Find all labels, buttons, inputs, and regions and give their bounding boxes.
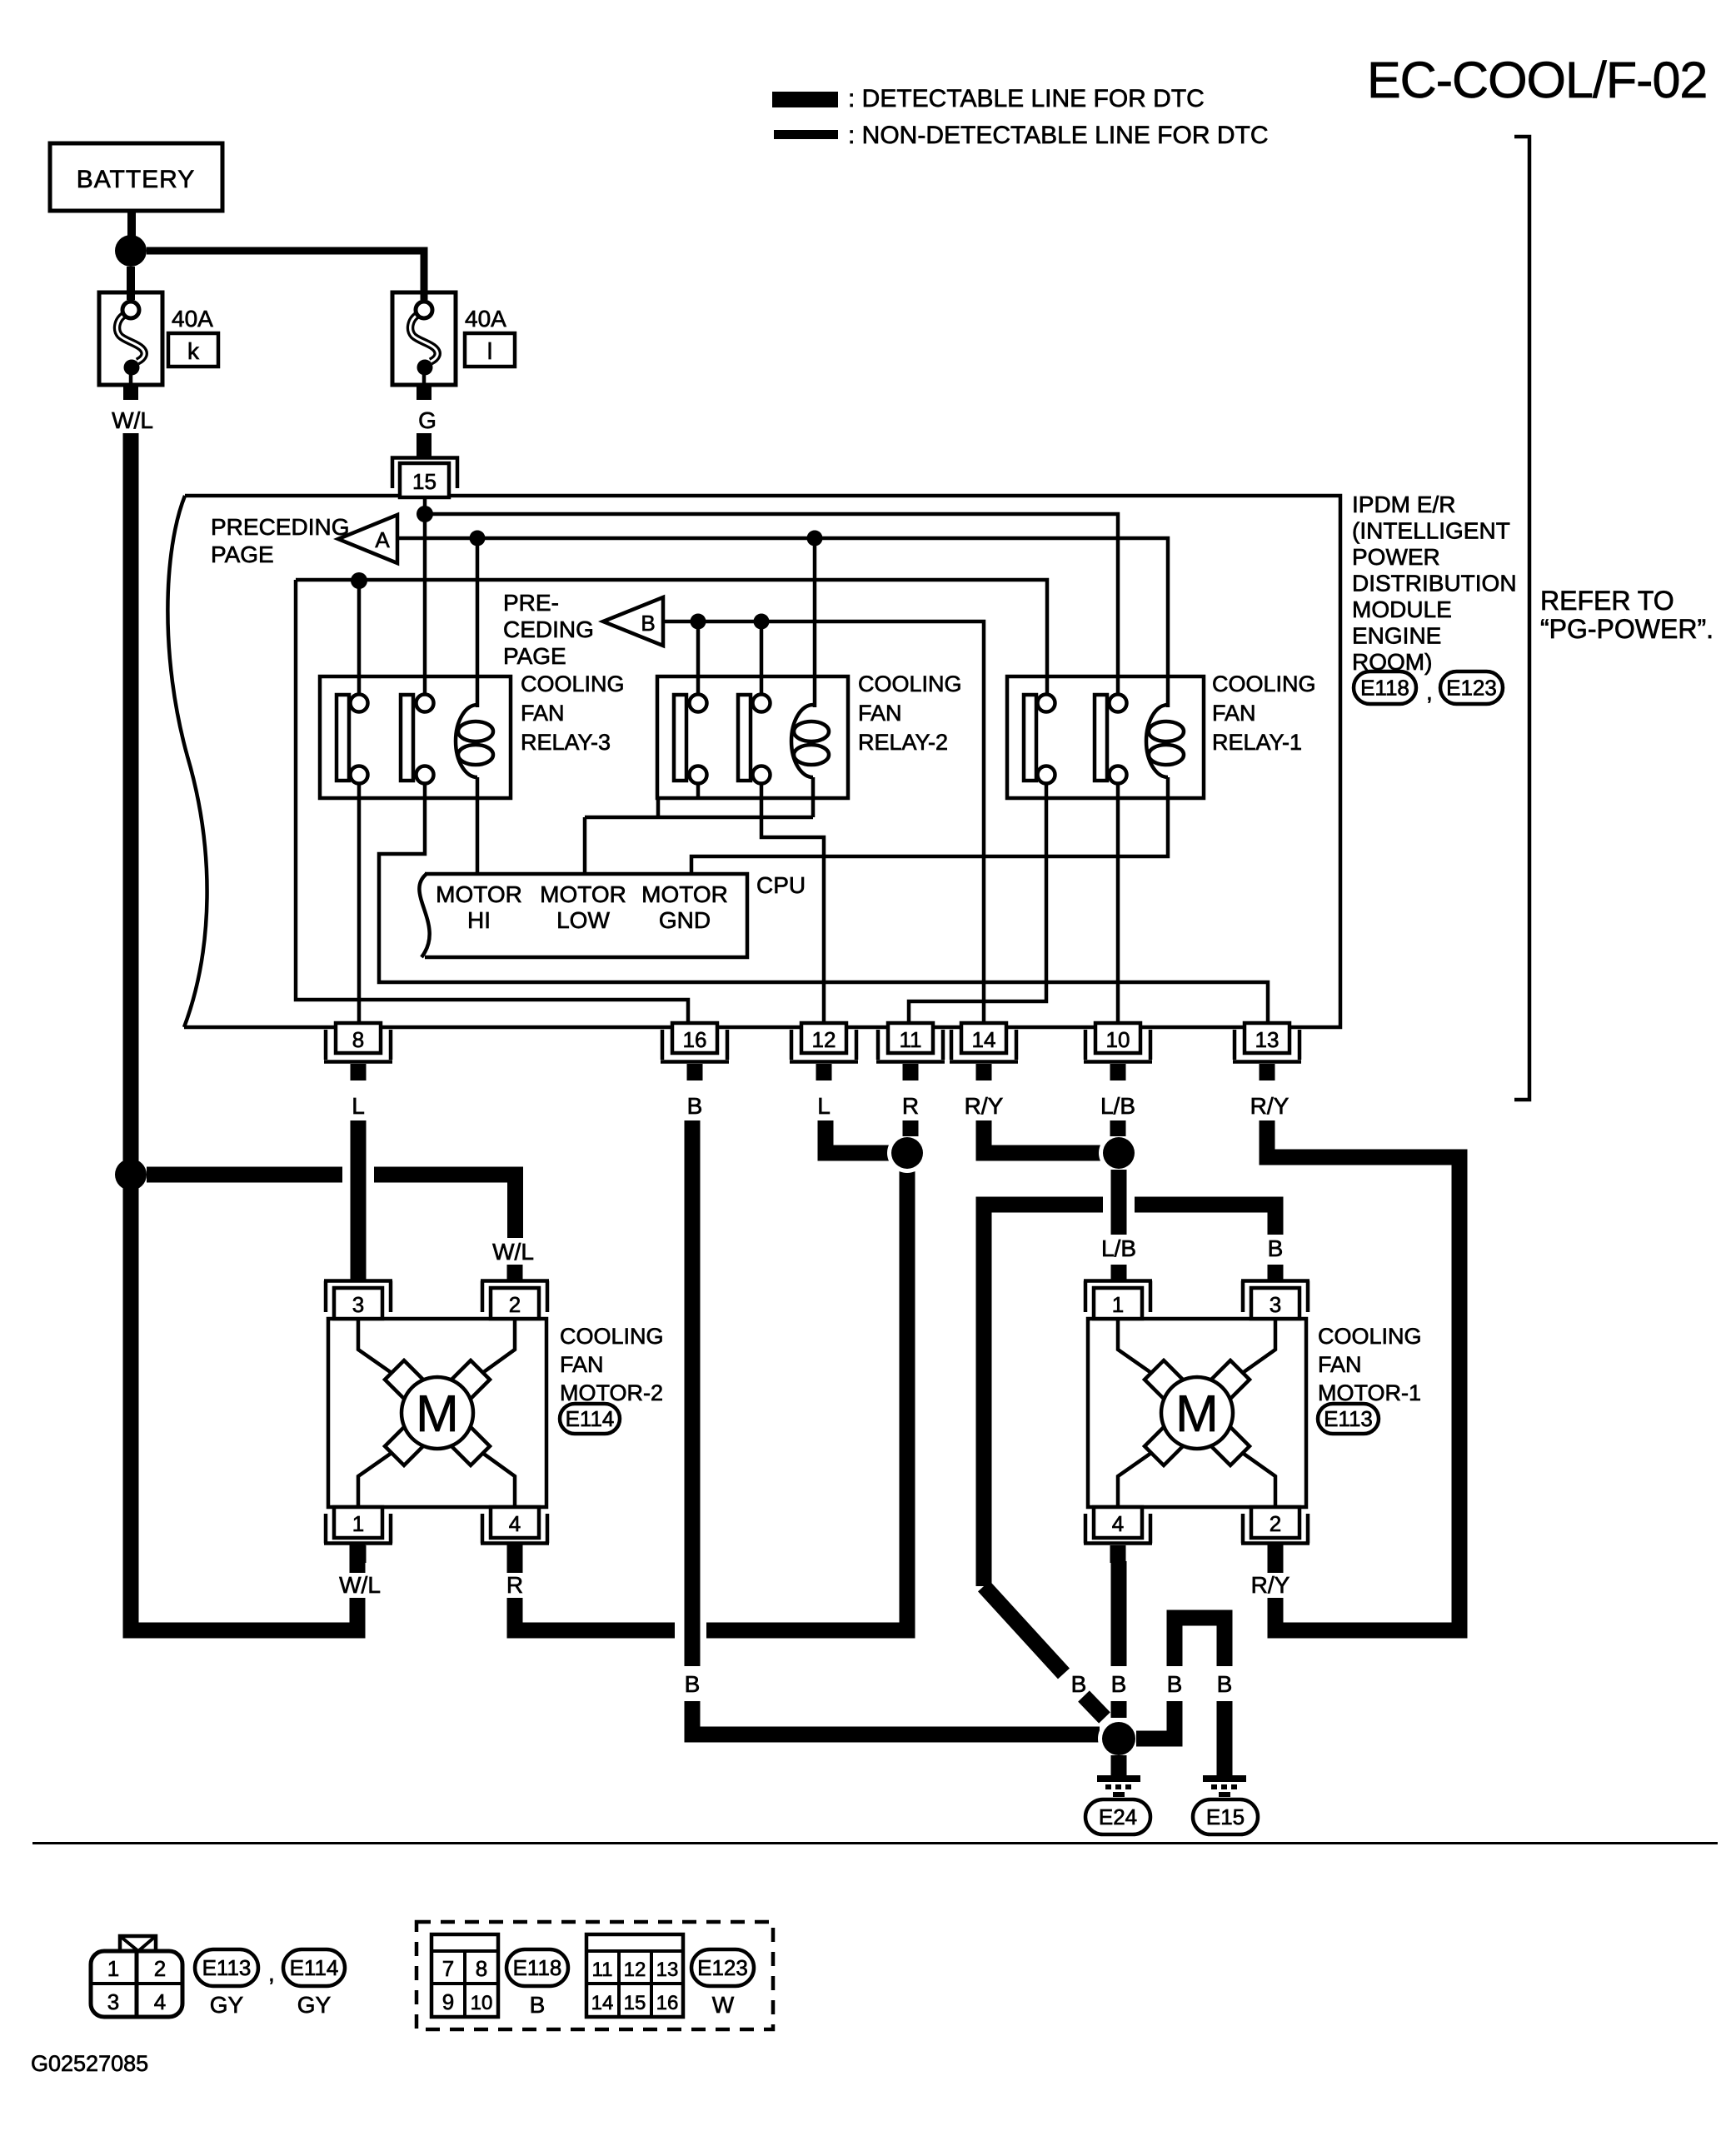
- node dot B to relay-2 bar2: [754, 614, 770, 630]
- svg-text:G02527085: G02527085: [31, 2051, 148, 2076]
- label B diagonal: [1071, 1671, 1087, 1697]
- label MOTOR HI: [436, 881, 522, 933]
- svg-text:B: B: [1268, 1235, 1284, 1261]
- relay K3 cooling fan relay-3: [320, 676, 511, 798]
- svg-text:40A: 40A: [172, 306, 213, 332]
- svg-text:2: 2: [1270, 1511, 1281, 1536]
- svg-text:BATTERY: BATTERY: [77, 166, 196, 193]
- label cooling fan motor-2: [560, 1324, 664, 1405]
- fuse l label 40A: [465, 306, 506, 332]
- label W E123: [712, 1992, 735, 2018]
- svg-text:RELAY-2: RELAY-2: [858, 730, 948, 755]
- svg-text:E24: E24: [1099, 1804, 1137, 1829]
- svg-text:11: 11: [592, 1959, 613, 1981]
- svg-text:EC-COOL/F-02: EC-COOL/F-02: [1367, 52, 1707, 108]
- svg-text:B: B: [685, 1671, 701, 1697]
- connector E123 oval bottom: [691, 1949, 754, 1986]
- wire bus A line to relay-1 coil: [397, 538, 1168, 707]
- svg-text:PRE-: PRE-: [503, 590, 559, 616]
- svg-text:2: 2: [154, 1956, 166, 1981]
- label cooling fan relay-1: [1212, 671, 1316, 755]
- label cooling fan motor-1: [1318, 1324, 1422, 1405]
- svg-text:16: 16: [683, 1027, 707, 1052]
- svg-text:COOLING: COOLING: [1318, 1324, 1422, 1349]
- svg-text:B: B: [1217, 1671, 1233, 1697]
- wire relay-2 coil down: [811, 777, 816, 817]
- wire fuse l output stub: [417, 385, 432, 400]
- fuse k letter box: [168, 333, 218, 367]
- svg-text:E113: E113: [202, 1955, 252, 1980]
- svg-text:12: 12: [624, 1959, 646, 1981]
- wire relay-2 bar2 to pin 12: [761, 784, 824, 1026]
- svg-text:ENGINE: ENGINE: [1352, 623, 1441, 649]
- svg-text:GY: GY: [210, 1992, 244, 2018]
- svg-text:FAN: FAN: [521, 701, 565, 726]
- wire relay-3 bar2 to pin 13: [379, 784, 1268, 1026]
- wire relay-3 coil to CPU MOTOR HI: [476, 777, 480, 876]
- wire relay-1 bar2 to pin 10: [1116, 784, 1120, 1026]
- svg-text:A: A: [375, 527, 390, 552]
- relay K1 cooling fan relay-1: [1007, 676, 1204, 798]
- label GY E113: [210, 1992, 244, 2018]
- svg-text:k: k: [187, 338, 200, 364]
- wire R/Y pin 14 to L/B node: [984, 1120, 1101, 1153]
- CPU box: [419, 874, 747, 957]
- triangle B preceding page: [603, 597, 663, 646]
- label R/Y pin 13 wire: [1250, 1093, 1290, 1119]
- svg-text:B: B: [687, 1093, 703, 1119]
- svg-text:M: M: [1175, 1385, 1219, 1443]
- svg-text:CEDING: CEDING: [503, 616, 594, 642]
- label W/L fuse k: [112, 407, 153, 433]
- wire ground node to E15 bridge: [1136, 1618, 1225, 1776]
- svg-text:9: 9: [442, 1989, 454, 2014]
- pin 15 connector box: [400, 463, 449, 497]
- svg-text:l: l: [487, 338, 492, 364]
- battery: [50, 143, 222, 211]
- junction dot battery node: [115, 235, 147, 267]
- connector view E118 grid: [432, 1934, 498, 2017]
- wire branch to relay-2 bar2: [760, 621, 764, 705]
- comma between connector ovals: [1426, 679, 1433, 705]
- wire bus line to relay-1 bar2: [425, 514, 1118, 705]
- fuse k label 40A: [172, 306, 213, 332]
- svg-text:REFER TO: REFER TO: [1540, 586, 1674, 616]
- fuse l 40A: [392, 287, 456, 385]
- wire relay-2 bar1 stub: [696, 784, 701, 798]
- svg-text:PRECEDING: PRECEDING: [211, 514, 349, 540]
- svg-text:4: 4: [154, 1989, 166, 2014]
- svg-text:COOLING: COOLING: [1212, 671, 1316, 696]
- node dot A to relay-3 coil: [470, 531, 486, 546]
- ground E15 oval: [1193, 1799, 1258, 1834]
- label R/Y motor-1 pin2: [1251, 1572, 1290, 1598]
- connector E114 oval bottom: [283, 1949, 345, 1986]
- label B bridge left leg: [1167, 1671, 1183, 1697]
- svg-text:14: 14: [972, 1027, 996, 1052]
- fuse k 40A: [99, 268, 162, 385]
- svg-text:E118: E118: [513, 1955, 562, 1980]
- wire W/L node to motor-2 pin 2 (right part): [374, 1175, 516, 1238]
- svg-text:B: B: [1071, 1671, 1087, 1697]
- pin 10 connector IPDM: [1084, 1023, 1152, 1080]
- legend detectable text: [848, 85, 1205, 112]
- svg-text:4: 4: [509, 1511, 521, 1536]
- svg-text:LOW: LOW: [556, 907, 610, 933]
- svg-text:W/L: W/L: [492, 1239, 534, 1265]
- label cooling fan relay-3: [521, 671, 625, 755]
- ground symbol E24: [1097, 1775, 1140, 1797]
- svg-text:E123: E123: [697, 1955, 748, 1980]
- legend non-detectable text: [848, 122, 1269, 149]
- label MOTOR LOW: [540, 881, 626, 933]
- wire battery to junction: [127, 211, 136, 237]
- svg-text:: NON-DETECTABLE LINE FOR DTC: : NON-DETECTABLE LINE FOR DTC: [848, 122, 1269, 149]
- svg-text:COOLING: COOLING: [858, 671, 962, 696]
- label B bridge: [1217, 1671, 1233, 1697]
- wire L/B node to motor-1 pin 1: [1111, 1170, 1127, 1280]
- triangle A preceding page: [338, 515, 397, 563]
- svg-text:MOTOR: MOTOR: [540, 881, 626, 907]
- svg-text:1: 1: [107, 1956, 119, 1981]
- label R motor-2 pin4: [506, 1572, 523, 1598]
- svg-text:E113: E113: [1324, 1406, 1373, 1431]
- svg-text:“PG-POWER”.: “PG-POWER”.: [1540, 614, 1714, 644]
- connector E118 oval bottom: [506, 1949, 568, 1986]
- svg-text:B: B: [1111, 1671, 1127, 1697]
- node dot pin15 bus: [417, 506, 433, 522]
- wire battery node to fuse k: [127, 267, 135, 292]
- svg-text:40A: 40A: [465, 306, 506, 332]
- pin 16 connector IPDM: [661, 1023, 729, 1080]
- label W/L motor-2 pin2: [492, 1239, 534, 1265]
- svg-text:DISTRIBUTION: DISTRIBUTION: [1352, 571, 1517, 596]
- svg-text:MOTOR: MOTOR: [436, 881, 522, 907]
- label B pin 16 wire: [687, 1093, 703, 1119]
- svg-text:M: M: [416, 1385, 459, 1443]
- wire B crossline to motor-1 pin 3: [984, 1205, 1275, 1586]
- IPDM E/R label: [1352, 492, 1517, 675]
- svg-text:10: 10: [1106, 1027, 1130, 1052]
- svg-text:11: 11: [900, 1027, 922, 1052]
- label MOTOR GND: [641, 881, 728, 933]
- connector E113 oval bottom: [195, 1949, 258, 1986]
- wire B line to pin 14: [663, 621, 984, 1026]
- svg-text:MODULE: MODULE: [1352, 596, 1452, 622]
- connector view E113/E114 4-pin: [91, 1936, 182, 2017]
- svg-text:GY: GY: [297, 1992, 332, 2018]
- wire W/L into motor-2 pin 2: [507, 1265, 523, 1280]
- wire R/Y pin 13 loop to motor-1 pin 2: [1267, 1120, 1459, 1630]
- separator line: [32, 1842, 1718, 1844]
- svg-text:HI: HI: [467, 907, 491, 933]
- svg-text:L: L: [352, 1093, 365, 1119]
- svg-text:4: 4: [1112, 1511, 1124, 1536]
- label B motor-1 pin3: [1268, 1235, 1284, 1261]
- wire R motor-2 pin 4 riser: [515, 1545, 675, 1630]
- svg-text:W/L: W/L: [339, 1572, 381, 1598]
- svg-text:MOTOR: MOTOR: [641, 881, 728, 907]
- connector E113 oval: [1318, 1404, 1379, 1434]
- wire B pin 16 down and to ground node: [692, 1120, 1100, 1734]
- comma bottom: [268, 1960, 275, 1986]
- svg-text:E114: E114: [290, 1955, 339, 1980]
- wire branch to relay-3 bar1: [357, 581, 362, 705]
- svg-text:,: ,: [1426, 679, 1433, 705]
- wire bus to relay bar1 tops and pin 16: [296, 580, 1047, 1026]
- svg-text:R/Y: R/Y: [965, 1093, 1004, 1119]
- dashed box connector views: [417, 1922, 773, 2029]
- svg-text:,: ,: [268, 1960, 275, 1986]
- legend detectable line sample: [772, 92, 838, 107]
- node dot A to relay-2 coil: [807, 531, 823, 546]
- wire W/L battery feed left side: [131, 433, 365, 1630]
- label L/B motor-1 pin1: [1101, 1235, 1136, 1261]
- ground E24 oval: [1085, 1799, 1150, 1834]
- svg-text:RELAY-1: RELAY-1: [1212, 730, 1302, 755]
- motor M2 cooling fan motor-2: [324, 1281, 549, 1574]
- svg-text:2: 2: [509, 1292, 521, 1317]
- title EC-COOL/F-02: [1367, 52, 1707, 108]
- wire fuse k output stub: [123, 385, 138, 400]
- svg-text:W: W: [712, 1992, 735, 2018]
- svg-text:7: 7: [442, 1956, 454, 1981]
- svg-text:R: R: [902, 1093, 919, 1119]
- label cooling fan relay-2: [858, 671, 962, 755]
- connector E114 oval: [560, 1404, 620, 1434]
- wire W/L motor-2 pin 1 riser: [350, 1545, 366, 1639]
- relay K2 cooling fan relay-2: [657, 676, 848, 798]
- label W/L motor-2 pin1: [339, 1572, 381, 1598]
- svg-text:L: L: [817, 1093, 831, 1119]
- junction dot L/R node: [887, 1133, 927, 1173]
- svg-text:R/Y: R/Y: [1251, 1572, 1290, 1598]
- svg-text:L/B: L/B: [1101, 1235, 1136, 1261]
- svg-text:13: 13: [656, 1959, 679, 1981]
- wire pin15 to relay-3 bar2: [423, 499, 427, 705]
- svg-text:B: B: [641, 611, 655, 636]
- label R/Y pin 14 wire: [965, 1093, 1004, 1119]
- label preceding page B: [503, 590, 594, 669]
- svg-text:PAGE: PAGE: [211, 541, 274, 567]
- wire L/B pin 10 to node: [1110, 1120, 1126, 1136]
- svg-text:R/Y: R/Y: [1250, 1093, 1290, 1119]
- wire W/L node to motor-2 pin 2 (left part): [147, 1167, 342, 1183]
- ground symbol E15: [1203, 1775, 1246, 1797]
- wire relay-2 corner to CPU MOTOR LOW: [585, 798, 813, 876]
- svg-text:8: 8: [476, 1956, 487, 1981]
- svg-text:POWER: POWER: [1352, 544, 1440, 570]
- svg-text:W/L: W/L: [112, 407, 153, 433]
- svg-text:B: B: [530, 1992, 546, 2018]
- svg-text:1: 1: [352, 1511, 364, 1536]
- label G fuse l: [418, 407, 436, 433]
- svg-text:IPDM E/R: IPDM E/R: [1352, 492, 1455, 517]
- legend non-detectable line sample: [774, 130, 838, 139]
- pin 11 connector IPDM: [876, 1023, 945, 1080]
- svg-text:COOLING: COOLING: [560, 1324, 664, 1349]
- pin 12 connector IPDM: [790, 1023, 858, 1080]
- label preceding page A: [211, 514, 349, 567]
- svg-text:3: 3: [107, 1989, 119, 2014]
- wire L pin 8 to motor-2 pin 3: [351, 1120, 367, 1280]
- svg-text:8: 8: [352, 1027, 364, 1052]
- wire relay-3 bar1 to pin 8: [357, 784, 362, 1026]
- label B E118: [530, 1992, 546, 2018]
- svg-text:3: 3: [352, 1292, 364, 1317]
- svg-text:16: 16: [656, 1992, 679, 2014]
- wire G to pin 15: [417, 433, 432, 457]
- label B pin16 wire lower: [685, 1671, 701, 1697]
- svg-text:3: 3: [1270, 1292, 1281, 1317]
- wire ground node to E24: [1111, 1755, 1127, 1776]
- svg-text:FAN: FAN: [1318, 1352, 1362, 1377]
- node dot B to relay-2 bar1: [691, 614, 706, 630]
- svg-text:12: 12: [812, 1027, 836, 1052]
- IPDM E/R box: [167, 496, 1340, 1027]
- refer-to bracket: [1514, 137, 1529, 1100]
- wire A line branch to relay-2 coil: [813, 538, 817, 707]
- connector view E123 grid: [586, 1934, 683, 2017]
- figure number G02527085: [31, 2051, 148, 2076]
- label L pin 8 wire: [352, 1093, 365, 1119]
- svg-text:E123: E123: [1446, 676, 1497, 701]
- svg-text:FAN: FAN: [858, 701, 902, 726]
- pin 8 connector IPDM: [324, 1023, 392, 1080]
- junction dot ground node: [1098, 1718, 1140, 1759]
- label L/B pin 10 wire: [1100, 1093, 1135, 1119]
- wire R pin 11 to node: [903, 1120, 919, 1136]
- svg-text:G: G: [418, 407, 436, 433]
- node dot bus to relay-3 bar1: [351, 572, 367, 589]
- wire motor-1 pin 4 B to ground node: [1111, 1561, 1127, 1718]
- wire relay-1 bar1 to pin 11: [909, 784, 1046, 1026]
- svg-text:1: 1: [1112, 1292, 1124, 1317]
- connector E118 oval: [1354, 671, 1416, 704]
- junction dot L/B node: [1099, 1133, 1139, 1173]
- svg-text:(INTELLIGENT: (INTELLIGENT: [1352, 518, 1510, 544]
- svg-text:E118: E118: [1360, 676, 1409, 701]
- svg-text:E114: E114: [566, 1406, 615, 1431]
- wire relay-1 coil to CPU MOTOR GND: [691, 777, 1168, 876]
- svg-text:: DETECTABLE LINE FOR DTC: : DETECTABLE LINE FOR DTC: [848, 85, 1205, 112]
- wire A line branch to relay-3 coil: [476, 538, 480, 707]
- svg-text:FAN: FAN: [560, 1352, 604, 1377]
- svg-text:MOTOR-1: MOTOR-1: [1318, 1380, 1421, 1405]
- wire branch to relay-2 bar1: [696, 621, 701, 705]
- label CPU: [756, 872, 806, 898]
- wire diagonal B to ground node: [984, 1586, 1105, 1718]
- svg-text:B: B: [1167, 1671, 1183, 1697]
- motor M1 cooling fan motor-1: [1084, 1281, 1309, 1574]
- svg-text:RELAY-3: RELAY-3: [521, 730, 611, 755]
- label GY E114: [297, 1992, 332, 2018]
- svg-text:COOLING: COOLING: [521, 671, 625, 696]
- svg-text:GND: GND: [659, 907, 711, 933]
- pin 13 connector IPDM: [1233, 1023, 1301, 1080]
- refer-to text: [1540, 586, 1714, 644]
- svg-text:13: 13: [1255, 1027, 1280, 1052]
- label R pin 11 wire: [902, 1093, 919, 1119]
- svg-text:14: 14: [591, 1992, 614, 2014]
- svg-text:15: 15: [624, 1992, 646, 2014]
- pin 15 connector bracket: [392, 458, 457, 489]
- svg-text:CPU: CPU: [756, 872, 806, 898]
- svg-text:PAGE: PAGE: [503, 643, 566, 669]
- svg-text:MOTOR-2: MOTOR-2: [560, 1380, 663, 1405]
- svg-text:FAN: FAN: [1212, 701, 1256, 726]
- label B motor-1 pin4: [1111, 1671, 1127, 1697]
- wire battery node to fuse l: [147, 251, 424, 292]
- svg-text:10: 10: [471, 1992, 493, 2014]
- svg-text:E15: E15: [1206, 1804, 1245, 1829]
- svg-text:L/B: L/B: [1100, 1093, 1135, 1119]
- junction dot W/L node: [115, 1159, 147, 1190]
- wire R run to pin 11 node (right of B): [706, 1169, 907, 1630]
- wire L pin 12 to node: [826, 1120, 890, 1153]
- connector E123 oval: [1440, 671, 1503, 704]
- fuse l letter box: [465, 333, 515, 367]
- svg-text:15: 15: [412, 469, 436, 494]
- svg-text:R: R: [506, 1572, 523, 1598]
- label L pin 12 wire: [817, 1093, 831, 1119]
- pin 14 connector IPDM: [950, 1023, 1018, 1080]
